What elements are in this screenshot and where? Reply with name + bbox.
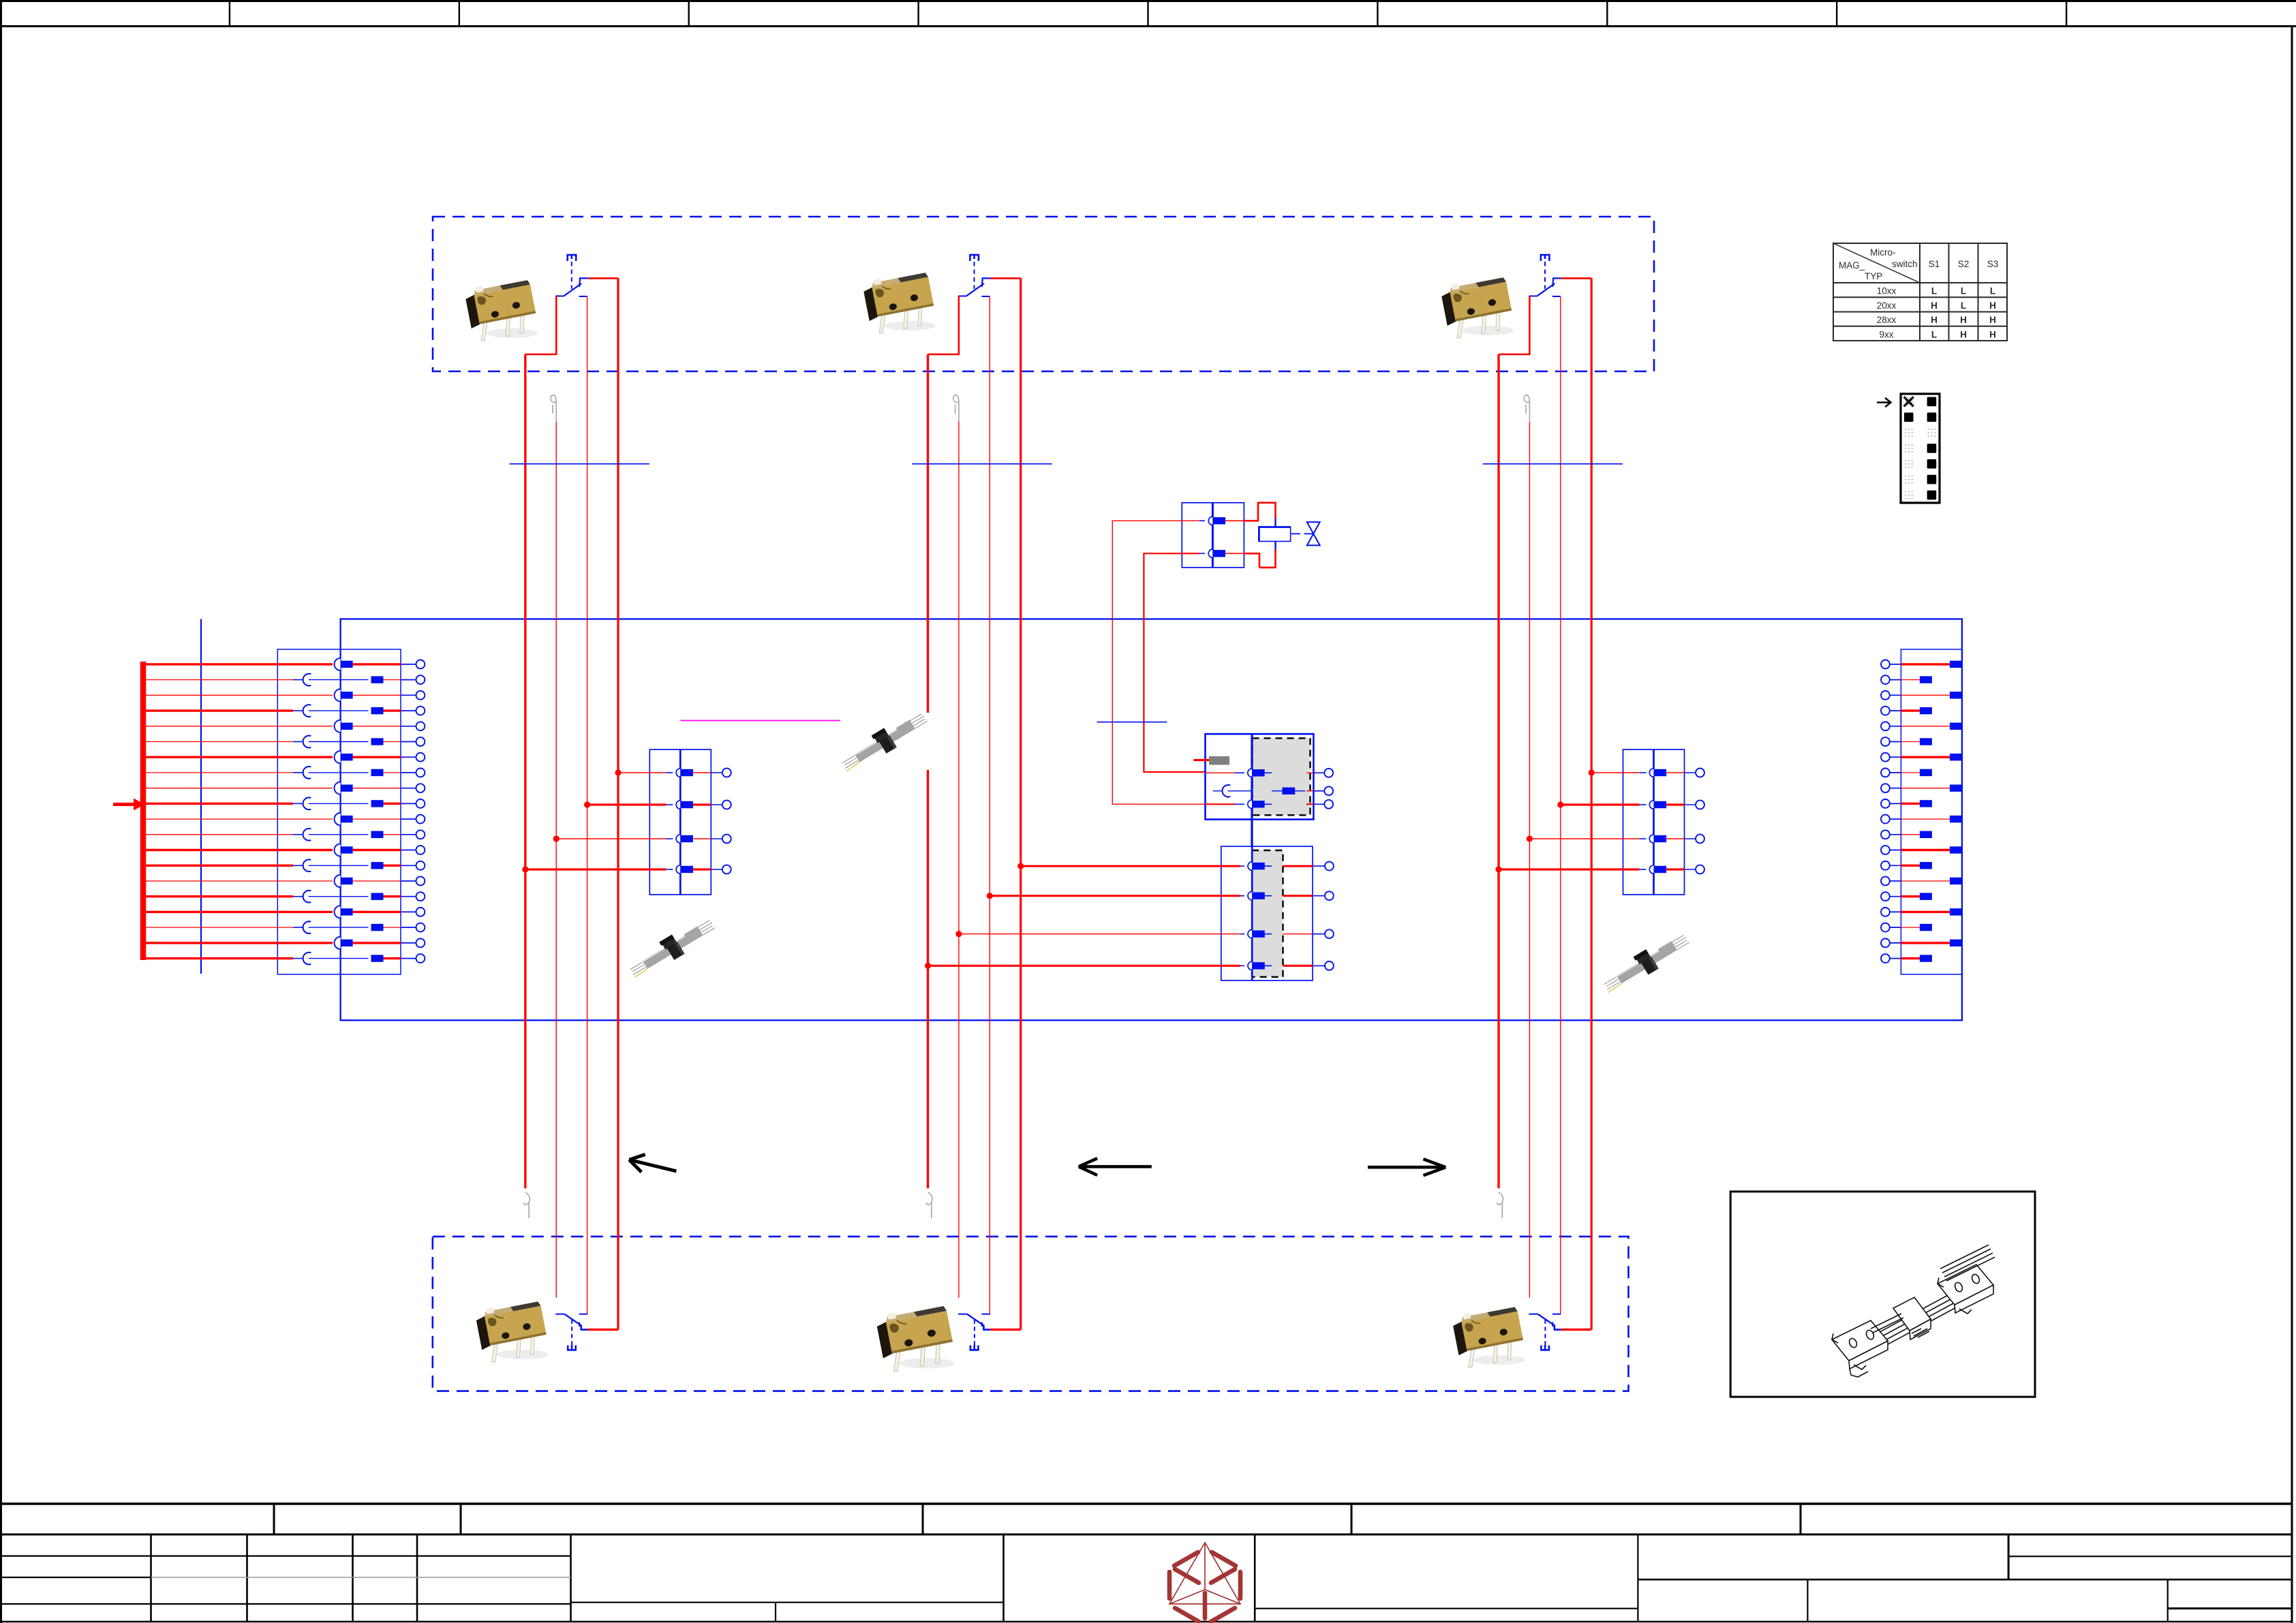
svg-text:L: L bbox=[1990, 286, 1995, 296]
ch3 mid connector pin 4 bbox=[1495, 865, 1704, 874]
lower connector pin at 1271.1 bbox=[1017, 862, 1334, 871]
lower connector pin at 1417.4 bbox=[925, 961, 1334, 970]
X1 pin 2 bbox=[143, 674, 425, 686]
ch1 wire D vertical bbox=[617, 278, 619, 1329]
ch1 mid connector bbox=[522, 749, 731, 895]
ch2 lower connector bbox=[925, 846, 1334, 980]
ch2 wire NO contact to D bbox=[990, 277, 1020, 279]
microswitch photo ch3 bottom bbox=[1451, 1304, 1525, 1367]
X2 pin 13 bbox=[1881, 846, 1962, 854]
ch3 crimp hook bottom bbox=[1497, 1192, 1503, 1218]
svg-text:Micro-: Micro- bbox=[1870, 247, 1896, 258]
ch1 wire B vertical bbox=[555, 422, 557, 1298]
X1 pin 10 bbox=[143, 798, 425, 810]
svg-text:L: L bbox=[1961, 300, 1966, 311]
lower connector pin at 1314.7 bbox=[987, 891, 1334, 900]
ch2 crimp hook bottom bbox=[926, 1192, 932, 1218]
svg-text:H: H bbox=[1960, 329, 1967, 339]
X2 pin 18 bbox=[1881, 923, 1932, 932]
X2 pin 2 bbox=[1881, 675, 1932, 684]
ch1 potential tick bbox=[510, 463, 649, 465]
X1 pin 6 bbox=[143, 736, 425, 748]
ch1 wire A vertical bbox=[524, 354, 526, 1188]
X2 pin 17 bbox=[1881, 908, 1962, 916]
X2 pin 16 bbox=[1881, 892, 1932, 901]
svg-text:switch: switch bbox=[1892, 259, 1918, 269]
ch1 mid connector pin 2 bbox=[584, 801, 731, 809]
X2 pin 20 bbox=[1881, 954, 1932, 963]
X1 pin 19 bbox=[143, 937, 425, 949]
X2 pin 8 bbox=[1881, 769, 1932, 777]
X1 pin 13 bbox=[143, 844, 425, 856]
ch2 valve feed wire 1 bbox=[1199, 520, 1205, 521]
microswitch photo ch1 bottom bbox=[474, 1299, 548, 1362]
ch3 wire B common + jog bbox=[1499, 296, 1529, 355]
ch2 feed potential tick bbox=[1097, 722, 1167, 723]
X1 pin 1 bbox=[143, 658, 425, 670]
ch3 potential tick bbox=[1483, 463, 1623, 465]
X1 pin 12 bbox=[143, 829, 425, 841]
channel 1: bottom switch symbol bbox=[555, 1314, 618, 1350]
ch2 wire B common + jog bbox=[928, 296, 959, 355]
ch2 relay K1 bbox=[1193, 734, 1333, 846]
ch3 mid connector pin 3 bbox=[1527, 835, 1704, 844]
micro-switch / MAG_TYP table bbox=[1833, 243, 2007, 341]
X1 pin 15 bbox=[143, 875, 425, 887]
left bus reference line bbox=[200, 619, 202, 974]
svg-text:28xx: 28xx bbox=[1877, 315, 1897, 325]
ch1 crimp hook top bbox=[551, 395, 556, 422]
X1 pin 7 bbox=[143, 751, 425, 763]
svg-text:L: L bbox=[1961, 286, 1966, 296]
ch1 crimp hook bottom bbox=[523, 1192, 530, 1218]
ch2 wire C vertical bbox=[989, 296, 990, 1314]
ribbon cable photo 2 bbox=[625, 914, 718, 983]
X1 pin 18 bbox=[143, 921, 425, 933]
svg-text:S1: S1 bbox=[1929, 259, 1940, 269]
X1 pin 14 bbox=[143, 859, 425, 871]
channel 3: top switch S3 symbol bbox=[1529, 255, 1561, 296]
ch2 valve feed wire 2 bbox=[1199, 553, 1205, 554]
svg-text:20xx: 20xx bbox=[1877, 300, 1897, 311]
svg-text:TYP: TYP bbox=[1865, 271, 1882, 281]
ch3 mid connector bbox=[1495, 749, 1704, 895]
svg-text:S3: S3 bbox=[1987, 259, 1999, 269]
svg-text:H: H bbox=[1989, 300, 1996, 311]
ribbon cable photo 1 bbox=[838, 707, 931, 776]
microswitch photo ch3 top bbox=[1440, 275, 1514, 338]
X2 pin 19 bbox=[1881, 939, 1962, 948]
X2 pin 11 bbox=[1881, 815, 1962, 824]
X1 pin 4 bbox=[143, 705, 425, 717]
X2 pin 4 bbox=[1881, 707, 1932, 715]
ch3 mid connector pin 1 bbox=[1589, 769, 1704, 777]
bottom dashed enclosure bbox=[433, 1237, 1629, 1391]
ch1 wire C vertical bbox=[587, 296, 588, 1314]
ch3 wire B vertical bbox=[1529, 422, 1530, 1298]
valve symbol bbox=[1291, 533, 1300, 534]
ch1 wire NO contact to D bbox=[588, 277, 618, 279]
company logo (icosahedron) bbox=[1169, 1543, 1240, 1622]
ch3 wire C vertical bbox=[1560, 296, 1561, 1314]
X1 pin 3 bbox=[143, 689, 425, 701]
ch2 wire B vertical bbox=[958, 422, 960, 1298]
ch2 wire D vertical bbox=[1020, 278, 1022, 1329]
magenta wire bbox=[681, 720, 843, 722]
ch1 wire B common + jog bbox=[525, 296, 556, 355]
svg-text:H: H bbox=[1989, 329, 1996, 339]
X2 pin 14 bbox=[1881, 861, 1932, 870]
lower connector pin at 1370.7 bbox=[955, 929, 1334, 938]
top dashed enclosure bbox=[433, 217, 1654, 371]
ch1 mid connector pin 4 bbox=[522, 865, 731, 874]
svg-text:9xx: 9xx bbox=[1879, 329, 1893, 339]
ch2 valve wiring humps bbox=[1225, 520, 1244, 521]
feeder arrow bbox=[113, 803, 134, 806]
microswitch photo ch1 top bbox=[464, 277, 538, 341]
X1 pin 5 bbox=[143, 720, 425, 732]
X2 pin 9 bbox=[1881, 784, 1962, 792]
left red feeder bar bbox=[140, 662, 147, 960]
svg-text:10xx: 10xx bbox=[1877, 286, 1897, 296]
X1 pin 20 bbox=[143, 953, 425, 965]
X2 pin 12 bbox=[1881, 830, 1932, 839]
right connector X2 bbox=[1901, 649, 1962, 974]
X2 pin 6 bbox=[1881, 737, 1932, 746]
X2 pin 10 bbox=[1881, 799, 1932, 808]
main harness rectangle bbox=[341, 619, 1962, 1021]
ch1 mid connector pin 1 bbox=[615, 769, 731, 777]
detail view box bbox=[1730, 1192, 2035, 1397]
ch3 wire NO contact to D bbox=[1561, 277, 1591, 279]
ch2 valve coil Y1 bbox=[1259, 527, 1290, 542]
X2 pin 5 bbox=[1881, 722, 1962, 730]
ch2 valve connector (2-pin) bbox=[1182, 503, 1244, 568]
svg-text:L: L bbox=[1931, 329, 1937, 339]
relay pin at 1160.8 bbox=[1213, 785, 1333, 797]
coding grid with arrow bbox=[1877, 394, 1940, 503]
ch2 potential tick bbox=[912, 463, 1052, 465]
X1 pin 8 bbox=[143, 767, 425, 779]
channel 2: top switch S2 symbol bbox=[958, 255, 991, 296]
X2 pin 15 bbox=[1881, 877, 1962, 886]
X1 pin 9 bbox=[143, 782, 425, 794]
channel 3: bottom switch symbol bbox=[1529, 1314, 1591, 1350]
ch2 crimp hook top bbox=[953, 395, 959, 422]
ch2 wire A vertical bbox=[927, 354, 929, 1188]
ch3 wire A vertical bbox=[1497, 354, 1499, 1188]
relay pin at 1134.3 bbox=[1206, 769, 1334, 777]
svg-text:S2: S2 bbox=[1958, 259, 1970, 269]
ch1 mid connector pin 3 bbox=[553, 835, 731, 844]
cable assembly line art bbox=[1832, 1245, 1995, 1377]
svg-text:H: H bbox=[1931, 300, 1938, 311]
X2 pin 1 bbox=[1881, 660, 1962, 669]
ribbon cable photo 3 bbox=[1599, 928, 1693, 997]
microswitch photo ch2 top bbox=[862, 270, 936, 333]
X1 pin 11 bbox=[143, 813, 425, 825]
direction arrow right bbox=[1368, 1159, 1445, 1175]
svg-text:H: H bbox=[1960, 315, 1967, 325]
channel 2: bottom switch symbol bbox=[958, 1314, 1021, 1350]
left connector X1 bbox=[277, 649, 401, 974]
ch3 mid connector pin 2 bbox=[1557, 801, 1704, 809]
ch3 wire D vertical bbox=[1591, 278, 1593, 1329]
relay pin at 1180.3 bbox=[1206, 800, 1334, 809]
X1 pin 17 bbox=[143, 906, 425, 918]
X1 pin 16 bbox=[143, 891, 425, 903]
svg-text:H: H bbox=[1989, 315, 1996, 325]
channel 1: top switch S1 symbol bbox=[555, 255, 588, 296]
microswitch photo ch2 bottom bbox=[875, 1303, 955, 1372]
X2 pin 7 bbox=[1881, 753, 1962, 762]
direction arrow ch1 (tilted) bbox=[629, 1154, 676, 1172]
svg-text:H: H bbox=[1931, 315, 1938, 325]
svg-text:L: L bbox=[1931, 286, 1937, 296]
title block bbox=[0, 1504, 2292, 1622]
X2 pin 3 bbox=[1881, 691, 1962, 700]
svg-text:MAG_: MAG_ bbox=[1839, 260, 1865, 270]
direction arrow left bbox=[1079, 1158, 1152, 1175]
ch3 crimp hook top bbox=[1524, 395, 1529, 422]
